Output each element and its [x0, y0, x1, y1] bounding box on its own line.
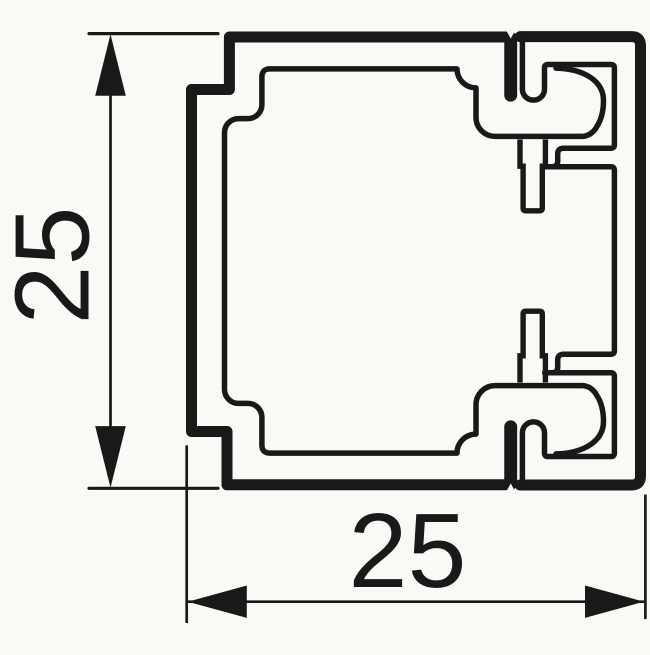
svg-text:25: 25: [349, 492, 467, 610]
svg-text:25: 25: [0, 207, 112, 325]
